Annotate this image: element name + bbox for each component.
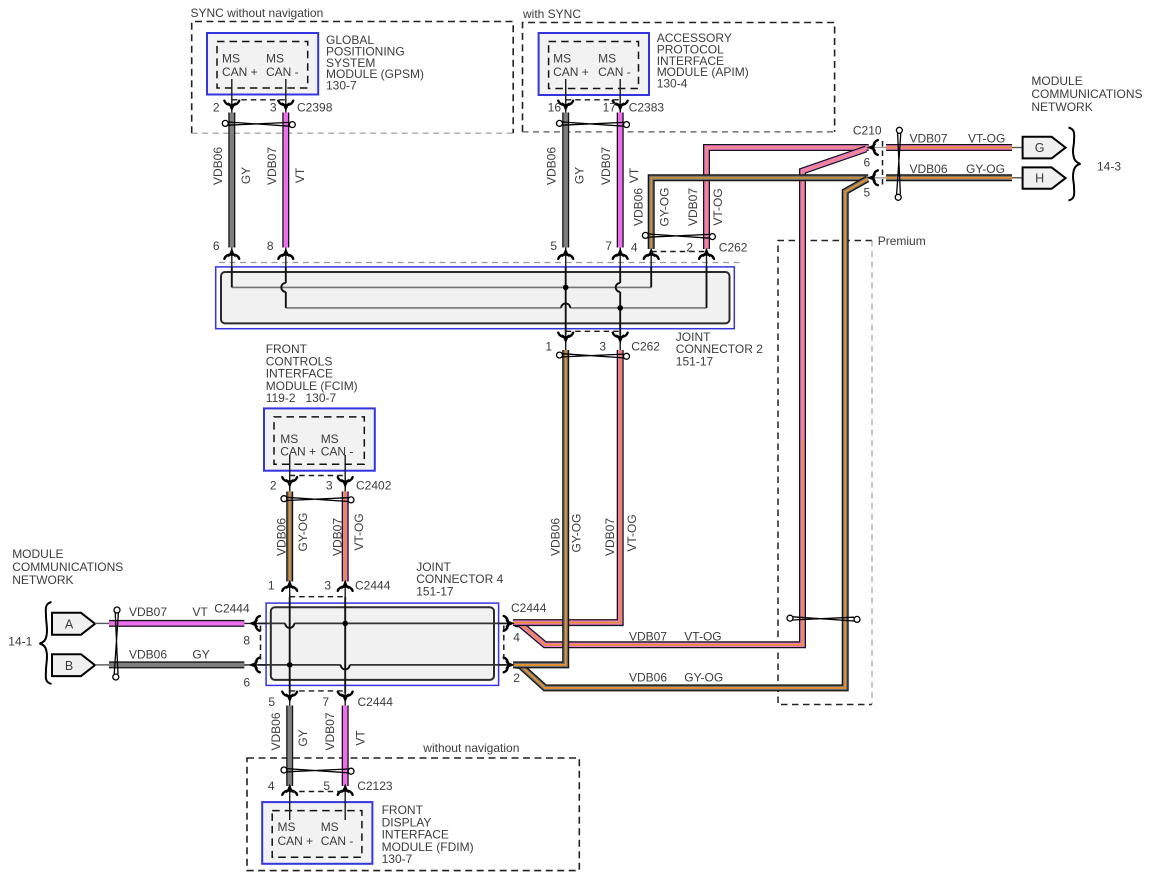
C2444 top dashed line xyxy=(290,596,346,598)
svg-text:VDB06: VDB06 xyxy=(211,147,225,185)
connector C2402 terminals xyxy=(282,477,297,487)
svg-text:5: 5 xyxy=(550,239,557,253)
svg-text:MODULE: MODULE xyxy=(12,547,63,561)
svg-text:3: 3 xyxy=(324,579,331,593)
svg-text:GY: GY xyxy=(192,648,209,662)
brace 14-1 xyxy=(40,602,52,684)
wire VDB06 GY (GPSM pin2 to JC2 pin6) xyxy=(228,113,235,248)
wire VDB06 GY (APIM pin16 to JC2 pin5) xyxy=(562,113,569,248)
svg-text:CAN -: CAN - xyxy=(321,444,354,458)
svg-text:130-4: 130-4 xyxy=(657,77,688,91)
svg-text:2: 2 xyxy=(213,101,220,115)
JC2 junction dot pin7-lower xyxy=(617,305,623,311)
svg-text:VDB06: VDB06 xyxy=(632,188,646,226)
wire VDB07 VT (connector A to JC4 pin8) xyxy=(109,620,244,627)
twisted pair C262 bottom xyxy=(557,352,630,359)
connector C2398 terminals xyxy=(224,101,239,111)
svg-text:GY-OG: GY-OG xyxy=(296,513,310,552)
FDIM pin stubs xyxy=(289,786,291,820)
twisted pair module network 14-1 xyxy=(113,607,120,680)
svg-text:G: G xyxy=(1035,141,1045,155)
wire VDB06 GY-OG (C262 pin4 up and right to C210 pin5) xyxy=(651,178,868,249)
svg-text:CAN -: CAN - xyxy=(321,834,354,848)
C262 top dashed line xyxy=(651,251,706,253)
JC2 junction dot pin5-upper xyxy=(563,285,569,291)
svg-text:GY: GY xyxy=(573,167,587,184)
C2444 bottom dashed line xyxy=(290,690,346,692)
svg-text:C2444: C2444 xyxy=(355,579,391,593)
svg-text:CAN +: CAN + xyxy=(553,65,589,79)
JC2 upper bus wire xyxy=(232,286,651,288)
svg-text:MS: MS xyxy=(553,52,571,66)
svg-text:14-1: 14-1 xyxy=(8,635,32,649)
C2444 left dashed line xyxy=(260,626,262,662)
JC2 hop: lower bus over pin5 wire xyxy=(561,303,570,308)
svg-text:VT: VT xyxy=(627,167,641,183)
svg-text:MS: MS xyxy=(598,52,616,66)
wire VDB06 GY-OG premium vertical (JC4 pin2 run to C210 pin5) xyxy=(515,179,868,688)
svg-text:VDB06: VDB06 xyxy=(269,712,283,750)
wire VDB06 GY-OG (FCIM pin2 to JC4 pin1) xyxy=(286,492,293,582)
svg-text:GY: GY xyxy=(296,729,310,746)
connector C210 terminals xyxy=(868,140,878,155)
svg-text:VDB07: VDB07 xyxy=(330,518,344,556)
JC2 gray boundary dashed line xyxy=(219,262,740,264)
svg-text:3: 3 xyxy=(270,101,277,115)
dashed box: Premium xyxy=(778,241,872,705)
svg-text:17: 17 xyxy=(603,101,617,115)
svg-text:VDB07: VDB07 xyxy=(599,147,613,185)
twisted pair C2398 xyxy=(222,120,295,127)
dashed box: without navigation xyxy=(247,758,579,871)
JC2 pin4 internal wire xyxy=(650,267,652,288)
svg-text:VT-OG: VT-OG xyxy=(352,513,366,550)
svg-text:CAN +: CAN + xyxy=(278,834,314,848)
svg-text:3: 3 xyxy=(599,340,606,354)
svg-text:MS: MS xyxy=(266,52,284,66)
svg-text:VT-OG: VT-OG xyxy=(684,630,721,644)
svg-text:8: 8 xyxy=(243,634,250,648)
svg-text:A: A xyxy=(65,617,74,631)
svg-text:VDB07: VDB07 xyxy=(129,605,167,619)
C2123 dashed line xyxy=(290,791,346,793)
svg-text:COMMUNICATIONS: COMMUNICATIONS xyxy=(12,560,123,574)
svg-text:VDB06: VDB06 xyxy=(910,162,948,176)
C2402 dashed line xyxy=(290,475,346,477)
connector A pentagon xyxy=(52,613,95,635)
svg-text:119-2 130-7: 119-2 130-7 xyxy=(266,391,337,405)
svg-text:with SYNC: with SYNC xyxy=(522,7,581,21)
twisted pair C2383 xyxy=(557,120,630,127)
svg-text:B: B xyxy=(65,659,73,673)
svg-text:GY-OG: GY-OG xyxy=(684,671,723,685)
svg-text:3: 3 xyxy=(326,479,333,493)
wire VDB07 VT (JC4 pin7 to FDIM pin5) xyxy=(342,706,349,787)
svg-text:MODULE: MODULE xyxy=(1031,74,1082,88)
C2444 right dashed line xyxy=(503,626,505,662)
twisted pair C2402 xyxy=(281,496,354,503)
JC4 hop: upper bus over pin1 wire xyxy=(285,623,294,628)
svg-text:6: 6 xyxy=(213,239,220,253)
svg-text:VT-OG: VT-OG xyxy=(625,514,639,551)
wire VDB06 GY (connector B to JC4 pin6) xyxy=(109,661,244,668)
svg-text:C262: C262 xyxy=(631,340,660,354)
svg-text:VT-OG: VT-OG xyxy=(711,188,725,225)
svg-text:NETWORK: NETWORK xyxy=(12,573,73,587)
JC2 pin2 internal wire xyxy=(706,267,708,308)
dashed box: SYNC without navigation xyxy=(192,22,514,134)
svg-text:7: 7 xyxy=(322,695,329,709)
svg-text:VDB06: VDB06 xyxy=(545,147,559,185)
svg-text:VDB07: VDB07 xyxy=(910,132,948,146)
svg-text:VDB06: VDB06 xyxy=(548,518,562,556)
svg-text:CAN -: CAN - xyxy=(598,65,631,79)
svg-text:VDB06: VDB06 xyxy=(129,648,167,662)
brace 14-3 xyxy=(1069,128,1081,201)
C210 dashed line xyxy=(882,141,884,185)
svg-text:SYNC without navigation: SYNC without navigation xyxy=(191,6,324,20)
svg-text:14-3: 14-3 xyxy=(1097,159,1121,173)
svg-text:GY-OG: GY-OG xyxy=(569,514,583,553)
FCIM pin stubs xyxy=(289,455,291,491)
connector C262 top terminals pins 4,2 xyxy=(644,249,659,259)
svg-text:VDB06: VDB06 xyxy=(629,671,667,685)
svg-text:C210: C210 xyxy=(853,124,882,138)
svg-text:4: 4 xyxy=(268,779,275,793)
JC2 pin5-pin1 through wire xyxy=(565,267,567,335)
JC4 junction dot pin3-upper xyxy=(342,621,348,627)
svg-text:GY-OG: GY-OG xyxy=(658,188,672,227)
JC4 top entry terminals C2444 pins 1,3 xyxy=(282,581,297,591)
svg-text:Premium: Premium xyxy=(878,234,926,248)
svg-text:C2444: C2444 xyxy=(511,601,547,615)
svg-text:6: 6 xyxy=(864,155,871,169)
JC2 pin7-pin3 through wire xyxy=(619,267,621,283)
svg-text:1: 1 xyxy=(268,579,275,593)
svg-text:2: 2 xyxy=(686,241,693,255)
svg-text:MS: MS xyxy=(222,52,240,66)
shaft lines at connectors xyxy=(231,248,233,268)
wire VDB06 GY-OG (JC4 pin2 to C262 pin1) xyxy=(513,350,566,665)
svg-text:GY: GY xyxy=(239,167,253,184)
module FCIM box xyxy=(264,408,375,470)
JC2 lower bus wire xyxy=(286,307,561,309)
svg-text:CAN +: CAN + xyxy=(222,65,258,79)
wire VDB07 VT-OG (JC4 pin4 to C262 pin3) xyxy=(513,350,620,623)
twisted pair module network 14-3 xyxy=(895,127,902,200)
svg-text:2: 2 xyxy=(513,671,520,685)
svg-text:C2402: C2402 xyxy=(356,479,392,493)
svg-text:C2444: C2444 xyxy=(214,602,250,616)
svg-text:16: 16 xyxy=(548,101,562,115)
APIM pin stubs xyxy=(565,79,567,113)
JC4 right exit terminals C2444 pins 4,2 xyxy=(504,616,514,631)
svg-text:1: 1 xyxy=(545,340,552,354)
twisted pair premium xyxy=(787,615,860,622)
wire VDB07 VT-OG premium vertical (JC4 pin4 run to C210 pin6) xyxy=(803,149,867,440)
svg-text:5: 5 xyxy=(323,779,330,793)
svg-text:151-17: 151-17 xyxy=(676,354,714,368)
svg-text:H: H xyxy=(1035,172,1044,186)
wire VDB07 VT-OG (FCIM pin3 to JC4 pin3) xyxy=(342,492,349,582)
wire VDB07 VT (GPSM pin3 to JC2 pin8) xyxy=(282,113,289,248)
C262 bottom dashed line xyxy=(566,330,621,332)
svg-text:VT: VT xyxy=(192,605,208,619)
module FDIM box xyxy=(262,802,372,864)
svg-text:4: 4 xyxy=(513,631,520,645)
svg-text:151-17: 151-17 xyxy=(416,584,454,598)
svg-text:CAN +: CAN + xyxy=(280,444,316,458)
wire VDB07 VT-OG (C210 pin6 to connector G) xyxy=(886,144,1012,151)
JC4 pin1-pin5 through wire xyxy=(289,597,291,693)
dashed box: with SYNC xyxy=(523,23,835,132)
svg-text:5: 5 xyxy=(268,695,275,709)
wire VDB06 GY-OG (C210 pin5 to connector H) xyxy=(886,174,1012,181)
svg-text:COMMUNICATIONS: COMMUNICATIONS xyxy=(1031,87,1142,101)
svg-text:without navigation: without navigation xyxy=(422,741,519,755)
svg-text:VDB06: VDB06 xyxy=(274,518,288,556)
JC4 lower bus wire xyxy=(258,664,341,666)
svg-text:130-7: 130-7 xyxy=(382,852,413,866)
JC2 pin6 internal wire xyxy=(231,267,233,288)
svg-text:VT-OG: VT-OG xyxy=(968,132,1005,146)
svg-text:C2123: C2123 xyxy=(357,779,393,793)
twisted pair C2123 xyxy=(281,767,354,774)
svg-text:VDB07: VDB07 xyxy=(265,147,279,185)
svg-text:MS: MS xyxy=(278,820,296,834)
svg-text:7: 7 xyxy=(605,239,612,253)
JC2 pin8 internal wire xyxy=(285,267,287,283)
connector C2123 terminals xyxy=(282,785,297,795)
svg-text:4: 4 xyxy=(631,241,638,255)
GPSM pin stubs xyxy=(231,79,233,113)
svg-text:C2383: C2383 xyxy=(629,101,665,115)
C2398 dashed line xyxy=(232,99,286,101)
svg-text:GY-OG: GY-OG xyxy=(966,162,1005,176)
module GPSM box xyxy=(207,33,318,95)
JC2 bottom exit terminals C262 pins 1,3 xyxy=(558,333,573,343)
svg-text:VT: VT xyxy=(354,730,368,746)
svg-text:C2398: C2398 xyxy=(297,101,333,115)
joint connector 2 box xyxy=(216,267,735,329)
svg-text:C2444: C2444 xyxy=(358,695,394,709)
svg-text:MS: MS xyxy=(321,820,339,834)
svg-text:NETWORK: NETWORK xyxy=(1031,100,1092,114)
JC4 upper bus wire xyxy=(258,622,285,624)
connector B pentagon xyxy=(52,654,95,676)
svg-text:CAN -: CAN - xyxy=(266,65,299,79)
svg-text:5: 5 xyxy=(864,186,871,200)
twisted pair C262 top xyxy=(642,232,715,239)
JC2 top entry terminals xyxy=(224,249,239,259)
connector C2383 terminals xyxy=(558,101,573,111)
svg-text:8: 8 xyxy=(267,239,274,253)
joint connector 4 box xyxy=(266,603,499,685)
connector H pentagon xyxy=(1012,177,1023,179)
svg-text:VDB07: VDB07 xyxy=(629,630,667,644)
svg-text:VDB07: VDB07 xyxy=(603,518,617,556)
connector G pentagon xyxy=(1012,147,1023,149)
JC4 pin3-pin7 through wire xyxy=(344,597,346,693)
svg-text:VDB07: VDB07 xyxy=(323,712,337,750)
module APIM box xyxy=(539,33,649,95)
wire VDB07 VT (APIM pin17 to JC2 pin7) xyxy=(617,113,624,248)
svg-text:2: 2 xyxy=(270,479,277,493)
wire VDB06 GY (JC4 pin5 to FDIM pin4) xyxy=(286,706,293,787)
svg-text:130-7: 130-7 xyxy=(326,79,357,93)
svg-text:6: 6 xyxy=(243,676,250,690)
JC4 left entry terminals C2444 pins 8,6 xyxy=(250,616,260,631)
svg-text:VDB07: VDB07 xyxy=(686,188,700,226)
JC4 junction dot pin1-lower xyxy=(287,662,293,668)
wire VDB07 VT-OG (C262 pin2 up and right to C210 pin6) xyxy=(707,148,869,250)
svg-text:VT: VT xyxy=(293,167,307,183)
JC4 hop: lower bus over pin7 wire xyxy=(341,665,350,670)
JC4 bottom exit terminals C2444 pins 5,7 xyxy=(282,692,297,702)
svg-text:C262: C262 xyxy=(719,241,748,255)
C2383 dashed line xyxy=(566,99,621,101)
